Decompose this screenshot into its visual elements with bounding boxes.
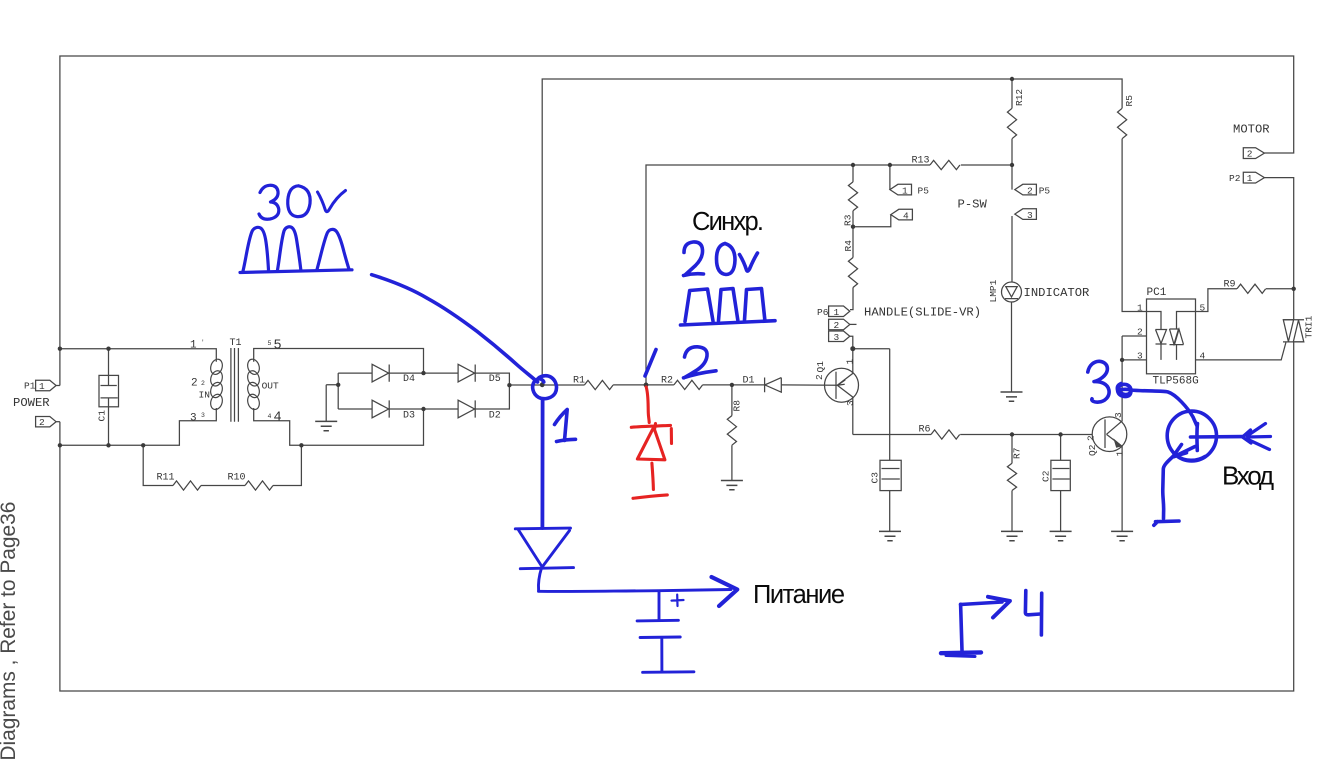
- svg-text:R4: R4: [843, 240, 854, 252]
- svg-text:MOTOR: MOTOR: [1233, 123, 1270, 137]
- svg-text:IN: IN: [199, 390, 210, 401]
- svg-text:D3: D3: [403, 410, 415, 421]
- svg-text:1: 1: [902, 185, 908, 196]
- svg-text:5: 5: [1200, 303, 1206, 314]
- svg-text:TRI1: TRI1: [1304, 315, 1315, 338]
- svg-text:3: 3: [1027, 210, 1033, 221]
- svg-text:Q1: Q1: [815, 361, 826, 373]
- svg-text:R8: R8: [732, 400, 743, 412]
- svg-text:3: 3: [1137, 351, 1143, 362]
- svg-text:3: 3: [190, 413, 197, 425]
- svg-text:Синхр.: Синхр.: [692, 208, 764, 236]
- svg-text:4: 4: [268, 413, 272, 420]
- svg-text:R3: R3: [843, 214, 854, 226]
- svg-text:': ': [201, 339, 205, 346]
- svg-text:R1: R1: [573, 376, 585, 387]
- svg-text:2: 2: [1027, 185, 1033, 196]
- svg-text:4: 4: [903, 210, 909, 221]
- svg-text:P1: P1: [24, 381, 36, 392]
- svg-text:R11: R11: [157, 473, 175, 484]
- svg-text:2: 2: [1086, 435, 1097, 441]
- svg-text:Питание: Питание: [753, 581, 845, 609]
- svg-text:HANDLE(SLIDE-VR): HANDLE(SLIDE-VR): [864, 306, 981, 320]
- svg-text:2: 2: [814, 374, 825, 380]
- svg-text:C2: C2: [1041, 470, 1052, 482]
- svg-text:LMP1: LMP1: [988, 279, 999, 302]
- svg-text:5: 5: [274, 339, 282, 354]
- svg-text:2: 2: [834, 320, 840, 331]
- svg-text:TLP568G: TLP568G: [1153, 376, 1199, 388]
- svg-text:1: 1: [834, 307, 840, 318]
- svg-text:Q2: Q2: [1087, 444, 1098, 456]
- svg-text:R13: R13: [912, 156, 930, 167]
- svg-text:R6: R6: [919, 425, 931, 436]
- svg-text:4: 4: [1200, 351, 1206, 362]
- svg-text:P-SW: P-SW: [958, 198, 988, 212]
- svg-text:OUT: OUT: [262, 381, 279, 392]
- svg-text:D4: D4: [403, 374, 415, 385]
- svg-text:P5: P5: [1039, 185, 1051, 196]
- svg-text:C1: C1: [97, 410, 108, 422]
- svg-text:R12: R12: [1014, 89, 1025, 106]
- svg-text:3: 3: [834, 332, 840, 343]
- svg-text:R5: R5: [1124, 95, 1135, 107]
- svg-text:INDICATOR: INDICATOR: [1024, 286, 1090, 300]
- svg-text:R7: R7: [1012, 448, 1023, 459]
- svg-text:g Diagrams , Refer to Page36: g Diagrams , Refer to Page36: [0, 502, 20, 759]
- svg-text:C3: C3: [870, 472, 881, 484]
- svg-text:3: 3: [1113, 412, 1124, 418]
- svg-text:D1: D1: [743, 376, 755, 387]
- svg-text:1: 1: [39, 381, 45, 392]
- svg-text:D2: D2: [489, 410, 501, 421]
- svg-text:2: 2: [1247, 149, 1253, 160]
- svg-text:POWER: POWER: [13, 396, 50, 410]
- svg-text:P5: P5: [918, 185, 930, 196]
- svg-text:1: 1: [845, 359, 856, 365]
- svg-text:R9: R9: [1224, 280, 1236, 291]
- svg-text:Вход: Вход: [1222, 461, 1274, 491]
- svg-text:P6: P6: [817, 307, 829, 318]
- svg-text:3: 3: [845, 400, 856, 406]
- svg-text:PC1: PC1: [1147, 287, 1167, 299]
- svg-text:1: 1: [1137, 303, 1143, 314]
- svg-text:4: 4: [274, 411, 282, 426]
- svg-text:R2: R2: [661, 376, 673, 387]
- svg-text:D5: D5: [489, 374, 501, 385]
- svg-text:5: 5: [268, 340, 272, 347]
- svg-text:1: 1: [1115, 451, 1126, 457]
- svg-text:R10: R10: [228, 473, 246, 484]
- svg-text:P2: P2: [1229, 173, 1241, 184]
- svg-text:2: 2: [201, 380, 205, 387]
- svg-text:3: 3: [201, 412, 205, 419]
- svg-text:1: 1: [1247, 173, 1253, 184]
- svg-text:2: 2: [191, 378, 198, 390]
- svg-text:1: 1: [190, 340, 197, 352]
- svg-text:2: 2: [39, 417, 45, 428]
- svg-text:T1: T1: [230, 338, 242, 349]
- svg-text:2: 2: [1137, 327, 1143, 338]
